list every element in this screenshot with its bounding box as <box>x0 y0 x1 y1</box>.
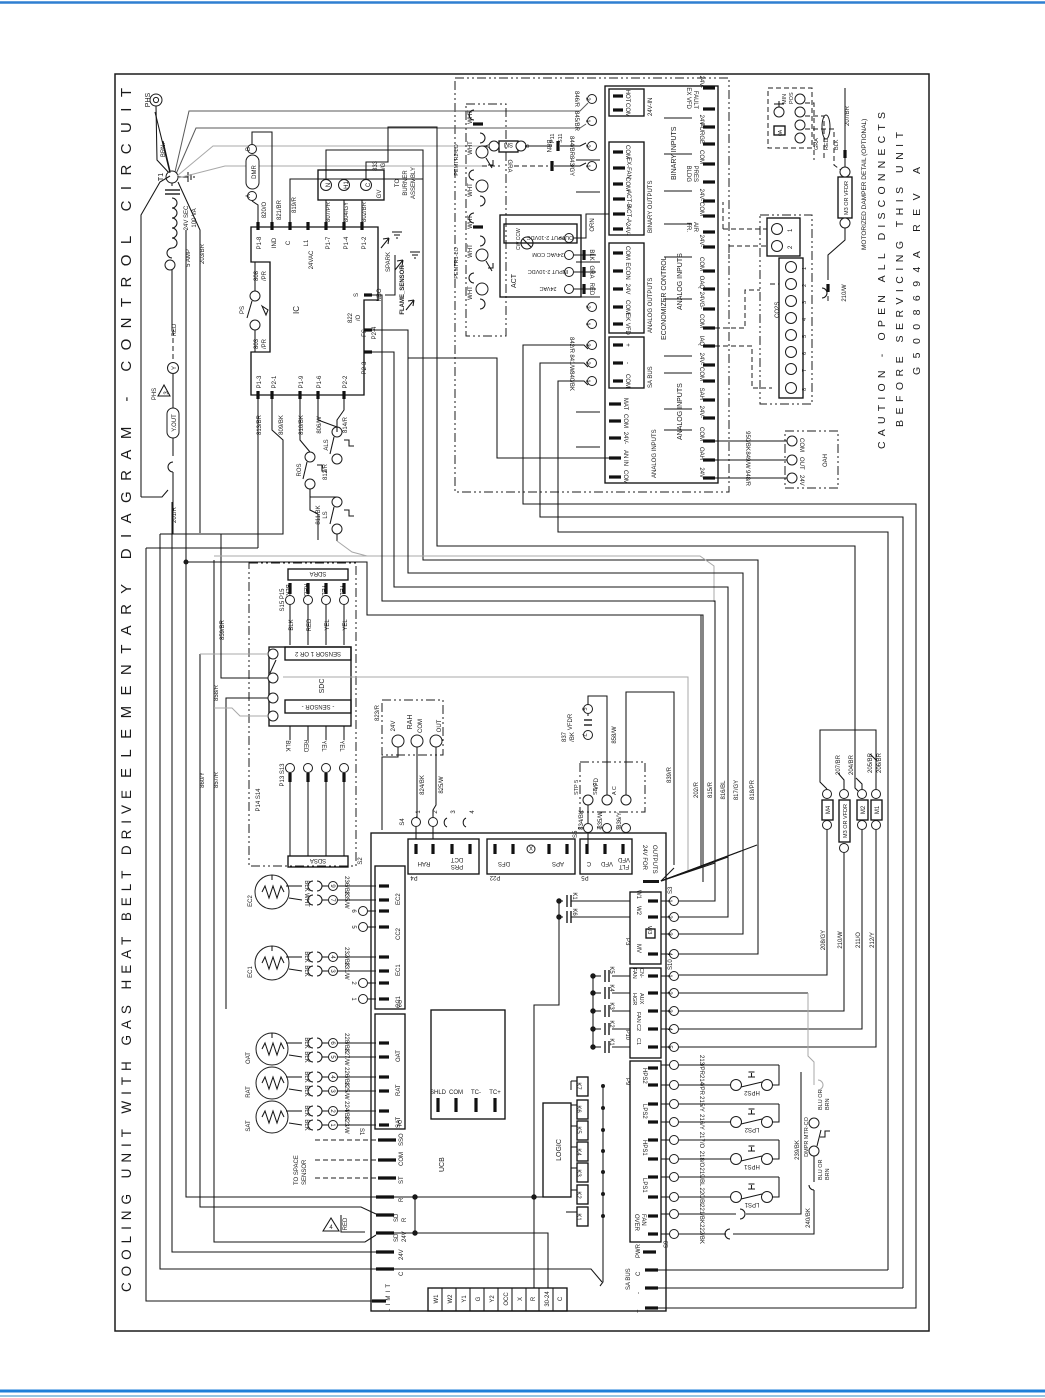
riser 817/GY to S3-3 <box>734 780 740 800</box>
svg-text:SD: SD <box>394 1213 400 1222</box>
svg-text:834/BK: 834/BK <box>579 810 585 830</box>
svg-text:BLK: BLK <box>289 619 295 630</box>
svg-text:835/W: 835/W <box>598 811 604 829</box>
svg-text:P2-4: P2-4 <box>372 326 378 339</box>
economizer ANALOG INPUTS terminals left column <box>609 398 658 484</box>
svg-text:AUX: AUX <box>638 993 644 1005</box>
svg-text:OVER: OVER <box>633 1214 639 1232</box>
svg-text:M2: M2 <box>861 805 867 814</box>
label 857/R <box>214 771 220 788</box>
svg-text:MOTORIZED DAMPER DETAIL (OPTIO: MOTORIZED DAMPER DETAIL (OPTIONAL) <box>861 119 868 250</box>
svg-text:COM: COM <box>622 470 628 484</box>
CO2S dash-dot enclosure <box>760 215 812 404</box>
label TO BURNER ASSEMBLY <box>395 167 417 199</box>
svg-text:ANALOG INPUTS: ANALOG INPUTS <box>677 383 684 440</box>
svg-text:HPS2: HPS2 <box>744 1089 760 1095</box>
svg-text:807/PR: 807/PR <box>326 201 332 222</box>
connector P2 <box>375 866 405 1009</box>
relay coil K2 <box>571 1185 605 1204</box>
S3 plug terminals <box>661 886 679 959</box>
svg-text:C: C <box>586 860 591 866</box>
svg-text:804/GY: 804/GY <box>344 202 350 222</box>
svg-text:24V-: 24V- <box>698 189 704 201</box>
connector P1 <box>358 1014 405 1136</box>
gray nested wire corner mid <box>283 677 688 872</box>
svg-text:S: S <box>354 293 360 297</box>
labels P11 S11 <box>550 134 564 143</box>
svg-text:GV: GV <box>377 190 383 199</box>
SDSA terminal box <box>288 856 364 867</box>
svg-text:W3: W3 <box>646 926 652 934</box>
svg-text:K5: K5 <box>608 966 614 974</box>
svg-text:INPUT 2-10VDC: INPUT 2-10VDC <box>528 268 569 274</box>
svg-text:S11: S11 <box>558 134 564 143</box>
label BRN. <box>161 143 167 158</box>
wire NBO riser to S3-1 <box>372 295 715 901</box>
svg-text:RED: RED <box>307 618 313 631</box>
wire 810/BK IC to ROS <box>299 399 310 452</box>
pressure switch HPS2 <box>679 1065 779 1096</box>
svg-text:COM: COM <box>624 246 630 260</box>
wire AN IN to right nest <box>408 358 609 458</box>
gray long wire upper <box>214 556 714 602</box>
svg-text:BINARY INPUTS: BINARY INPUTS <box>671 126 678 180</box>
wire 849/W to OAH <box>715 451 787 469</box>
svg-text:S5: S5 <box>573 830 579 838</box>
svg-text:857/R: 857/R <box>214 771 220 788</box>
svg-text:BLK: BLK <box>588 249 594 260</box>
svg-text:PS: PS <box>240 306 246 314</box>
svg-text:COM: COM <box>622 414 628 428</box>
svg-text:RAT: RAT <box>396 1084 402 1096</box>
terminal Y.OUT oval <box>167 374 179 438</box>
ACT wire GRA <box>574 265 596 278</box>
svg-text:HOT: HOT <box>624 90 630 103</box>
svg-text:TC+: TC+ <box>489 1090 501 1096</box>
thermistor EC1 <box>248 946 289 980</box>
svg-text:COM: COM <box>798 438 804 452</box>
svg-text:FAN: FAN <box>631 968 637 979</box>
svg-text:204/BR: 204/BR <box>849 754 855 775</box>
CO2 sensor connector upper <box>767 218 800 256</box>
svg-text:VFD: VFD <box>600 860 613 866</box>
svg-text:217/O: 217/O <box>698 1132 704 1149</box>
svg-text:OCC: OCC <box>504 1292 510 1306</box>
svg-text:6: 6 <box>802 352 808 355</box>
svg-text:C1: C1 <box>635 1038 641 1045</box>
svg-text:815/R: 815/R <box>708 781 714 798</box>
PEMTR1-LO sensor <box>454 213 493 309</box>
svg-text:BURNER: BURNER <box>403 170 409 196</box>
svg-text:RED: RED <box>172 323 178 336</box>
wire S10-2 run <box>679 992 808 994</box>
svg-text:EC1: EC1 <box>396 964 402 976</box>
svg-text:858/R: 858/R <box>214 684 220 701</box>
VFD contact detail <box>562 696 645 812</box>
svg-text:RED: RED <box>302 740 308 753</box>
svg-text:203/BR: 203/BR <box>200 243 206 264</box>
ACT wire RED <box>574 283 596 296</box>
svg-text:K2: K2 <box>608 1020 614 1028</box>
svg-text:MIN: MIN <box>782 94 788 104</box>
svg-text:PRS: PRS <box>451 863 463 869</box>
wire 201/R with plug <box>141 176 178 534</box>
svg-text:P1-7: P1-7 <box>326 236 332 249</box>
svg-text:7: 7 <box>802 369 808 372</box>
svg-text:WHT: WHT <box>468 215 474 229</box>
sensor plug S15 P15 columns <box>280 583 349 645</box>
wire 948/R to OAH <box>715 470 787 487</box>
svg-text:POS: POS <box>789 92 795 104</box>
svg-text:SM: SM <box>504 141 513 147</box>
svg-text:SAT: SAT <box>246 1120 252 1132</box>
svg-text:COM: COM <box>698 427 704 441</box>
svg-text:P1-3: P1-3 <box>257 375 263 388</box>
K bus vertical <box>600 1086 603 1286</box>
wire P2-3 riser to S3-2 <box>372 352 728 917</box>
svg-text:HPS1: HPS1 <box>744 1163 760 1169</box>
svg-text:24VAC COM: 24VAC COM <box>532 251 564 257</box>
svg-text:HGR: HGR <box>631 993 637 1005</box>
svg-text:Y1: Y1 <box>462 1295 468 1303</box>
wire ROS to LS link <box>310 489 337 497</box>
EC1 wire 231/W <box>289 962 376 980</box>
svg-text:PEMTR2-LO: PEMTR2-LO <box>454 144 460 176</box>
svg-text:R: R <box>531 1296 537 1301</box>
coil jumper M4 to M1 <box>820 730 876 789</box>
svg-text:DMR: DMR <box>252 165 258 179</box>
wire 207/BR hook to M3 <box>836 754 844 789</box>
IC control box outline <box>251 227 378 395</box>
title: COOLING UNIT WITH GAS HEAT BELT DRIVE <box>119 790 134 1292</box>
svg-text:BINARY OUTPUTS: BINARY OUTPUTS <box>648 181 654 233</box>
svg-text:841/W: 841/W <box>568 354 574 372</box>
svg-text:DCT: DCT <box>451 856 464 862</box>
dashed link CO2S upper <box>723 202 767 260</box>
relay contact K1 row <box>591 1038 630 1053</box>
svg-text:CN-: CN- <box>638 968 644 978</box>
svg-text:216/Y: 216/Y <box>698 1114 704 1130</box>
svg-text:COM: COM <box>698 367 704 381</box>
wire SD24V to 30-24 cell <box>394 1233 548 1288</box>
svg-text:YEL: YEL <box>320 740 326 752</box>
svg-text:LPS1: LPS1 <box>641 1178 647 1193</box>
svg-text:X: X <box>529 844 533 850</box>
svg-text:825/W: 825/W <box>439 776 445 794</box>
svg-text:CAUTION - OPEN ALL DISCONNECTS: CAUTION - OPEN ALL DISCONNECTS <box>876 112 888 449</box>
svg-text:L1: L1 <box>304 239 310 246</box>
spare plugs 6 5 <box>350 907 376 932</box>
svg-text:860/Y: 860/Y <box>200 772 206 788</box>
svg-text:ST: ST <box>399 1176 405 1184</box>
svg-text:W2: W2 <box>448 1294 454 1304</box>
VFD terminals STP SD A <box>574 777 631 805</box>
svg-text:CC2: CC2 <box>396 927 402 940</box>
svg-text:FAULT: FAULT <box>692 91 698 110</box>
svg-text:833: 833 <box>373 160 379 171</box>
svg-text:+: + <box>624 343 630 347</box>
svg-text:802/BR: 802/BR <box>362 201 368 222</box>
economizer section labels <box>661 126 684 440</box>
wire 802/BR <box>362 200 368 222</box>
LIMIT terminal <box>372 1284 392 1312</box>
flame sensor arrows and ground <box>372 252 420 330</box>
svg-text:COM: COM <box>698 257 704 271</box>
pressure switch LPS1 <box>679 1177 779 1207</box>
svg-text:WHT: WHT <box>468 110 474 124</box>
svg-text:Y: Y <box>172 366 178 370</box>
svg-text:Y.OUT: Y.OUT <box>172 414 178 432</box>
svg-text:TC-: TC- <box>471 1090 481 1096</box>
svg-text:809/BK: 809/BK <box>279 415 285 435</box>
svg-text:206/BR: 206/BR <box>877 752 883 773</box>
svg-text:819/R: 819/R <box>292 196 298 213</box>
SA BUS wires to right risers <box>658 1270 916 1308</box>
svg-text:P11: P11 <box>550 134 556 143</box>
ground symbol at T1 <box>178 172 194 182</box>
svg-text:P4: P4 <box>410 874 418 880</box>
relay DMR detail <box>246 145 259 201</box>
svg-text:+: + <box>636 1309 642 1313</box>
svg-text:P10: P10 <box>624 1030 630 1040</box>
svg-text:K1: K1 <box>575 1213 581 1221</box>
svg-text:ANALOG INPUTS: ANALOG INPUTS <box>677 253 684 310</box>
svg-text:812/R: 812/R <box>323 463 329 480</box>
separator ticks between right terminals <box>576 118 692 447</box>
UCB comms sub-box SHLD COM TC- TC+ <box>430 1010 505 1119</box>
svg-text:WHT: WHT <box>468 244 474 258</box>
label MOTORIZED DAMPER DETAIL <box>861 119 868 250</box>
relay SM detail <box>482 136 597 157</box>
svg-text:TO: TO <box>395 179 401 188</box>
svg-text:K3: K3 <box>575 1169 581 1177</box>
svg-text:GRA: GRA <box>588 265 594 278</box>
svg-text:SSO: SSO <box>399 1133 405 1146</box>
svg-text:LPS2: LPS2 <box>744 1126 759 1132</box>
svg-text:240/BK: 240/BK <box>806 1208 812 1228</box>
svg-text:813/BR: 813/BR <box>257 414 263 435</box>
svg-text:RED: RED <box>588 283 594 296</box>
svg-text:SENSOR: SENSOR <box>302 1159 308 1185</box>
svg-text:FAN: FAN <box>635 1012 641 1023</box>
svg-text:P1-8: P1-8 <box>257 236 263 249</box>
svg-text:K4: K4 <box>608 984 614 992</box>
SDC duct sensor box <box>268 647 351 726</box>
LOGIC box <box>543 1103 571 1197</box>
svg-text:APS: APS <box>552 860 564 866</box>
svg-text:A: A <box>246 194 252 198</box>
RAT wires <box>286 1067 376 1100</box>
svg-text:8: 8 <box>802 388 808 391</box>
svg-text:816/BL: 816/BL <box>721 780 727 800</box>
svg-text:K6: K6 <box>571 908 577 916</box>
svg-text:GRA: GRA <box>506 159 512 172</box>
svg-text:P1-6: P1-6 <box>317 375 323 388</box>
spare plugs 2 1 <box>350 979 376 1004</box>
svg-text:STP 5: STP 5 <box>574 780 580 795</box>
riser 815/R to S3-1 <box>708 781 714 798</box>
svg-text:S1: S1 <box>358 1128 364 1136</box>
svg-text:24V: 24V <box>391 721 397 732</box>
junction into R wire <box>184 560 703 882</box>
switch ROS <box>297 452 327 525</box>
svg-text:MV: MV <box>635 944 641 953</box>
wire 839/R from A terminal <box>626 692 674 865</box>
svg-text:BLU OR: BLU OR <box>818 1089 824 1110</box>
svg-text:YEL: YEL <box>338 740 344 752</box>
damper motor switch DMPR MTR-CO <box>804 1089 831 1190</box>
svg-text:K4: K4 <box>575 1148 581 1156</box>
gray wire from SDC 9 <box>214 708 268 716</box>
svg-text:SENSOR 1 OR 2: SENSOR 1 OR 2 <box>294 650 341 656</box>
svg-text:N: N <box>326 183 332 187</box>
svg-text:P2-2: P2-2 <box>343 375 349 388</box>
wire 204/BR label <box>849 754 855 775</box>
IC top pin labels <box>257 236 368 269</box>
connector P22 <box>487 839 575 880</box>
svg-text:24V-: 24V- <box>698 353 704 365</box>
svg-text:213/PR: 213/PR <box>698 1055 704 1076</box>
svg-text:24V-: 24V- <box>624 223 630 235</box>
svg-text:UCB: UCB <box>439 1157 446 1172</box>
left bus wire to C <box>172 502 376 1252</box>
svg-text:RAH: RAH <box>418 860 431 866</box>
svg-text:LPS2: LPS2 <box>641 1104 647 1119</box>
drawing border frame <box>115 74 929 1331</box>
svg-text:K2: K2 <box>575 1191 581 1199</box>
IC right pin NBO <box>354 288 383 301</box>
svg-text:COM: COM <box>399 1152 405 1166</box>
wire LS chain down <box>336 534 338 541</box>
IC right pin FS P2-4 <box>348 312 378 339</box>
svg-text:BLDG: BLDG <box>685 166 691 183</box>
svg-text:K5: K5 <box>575 1126 581 1134</box>
svg-text:/BK: /BK <box>570 732 576 742</box>
S5 plug terminals <box>573 805 631 844</box>
svg-text:FLT: FLT <box>619 863 630 869</box>
svg-text:219/BL: 219/BL <box>698 1167 704 1187</box>
EC2 wire 236/BK <box>286 876 376 896</box>
wire 842/R to M2 coil <box>523 337 916 1270</box>
svg-text:24V: 24V <box>798 475 804 486</box>
svg-text:211/O: 211/O <box>856 932 862 948</box>
wire 823/R from RAH <box>375 704 398 830</box>
svg-text:MAT: MAT <box>622 398 628 411</box>
UCB bottom terminal strip <box>428 1288 567 1311</box>
svg-text:24V-: 24V- <box>698 76 704 88</box>
thermistor OAT <box>246 1033 288 1065</box>
connector P5 <box>580 839 632 880</box>
wire RED dash-dot to Y terminal <box>168 270 179 374</box>
transformer secondary winding <box>172 183 198 238</box>
wire PHS to economizer 846/R <box>175 95 597 173</box>
svg-text:BLK: BLK <box>834 139 840 150</box>
caution note line 2 <box>894 131 906 427</box>
wire 210/W damper return <box>822 228 848 302</box>
svg-text:G5008694A REV A: G5008694A REV A <box>911 167 923 375</box>
svg-text:SAH: SAH <box>698 388 704 400</box>
svg-text:859/BR: 859/BR <box>220 619 226 640</box>
svg-text:CO2S: CO2S <box>775 302 781 318</box>
relay contact K5 row <box>591 966 630 982</box>
wire 821/BR <box>252 132 283 222</box>
svg-text:P1-2: P1-2 <box>362 236 368 249</box>
svg-text:PRES: PRES <box>692 166 698 182</box>
svg-text:P3: P3 <box>624 938 630 946</box>
CO2 sensor connector lower <box>775 258 808 398</box>
svg-text:ASSEMBLY: ASSEMBLY <box>411 167 417 199</box>
svg-text:215/Y: 215/Y <box>698 1096 704 1112</box>
svg-text:P2-1: P2-1 <box>272 375 278 388</box>
wire 804/GY <box>344 200 350 222</box>
svg-text:24V: 24V <box>624 284 630 295</box>
PEMTR2-LO sensor <box>454 110 493 206</box>
IC bottom pin bars <box>258 391 344 399</box>
svg-text:RAH: RAH <box>407 715 414 730</box>
svg-text:24V SEC: 24V SEC <box>184 205 190 230</box>
svg-text:- SENSOR -: - SENSOR - <box>302 703 335 709</box>
svg-text:205/BR: 205/BR <box>868 752 874 773</box>
svg-text:207/BR: 207/BR <box>845 105 851 126</box>
svg-text:EC2: EC2 <box>248 895 254 907</box>
damper detail harness oval <box>822 115 830 139</box>
economizer ANALOG OUTPUTS sub-box <box>609 243 654 336</box>
svg-text:YEL: YEL <box>338 584 344 596</box>
svg-text:SA BUS: SA BUS <box>626 1268 632 1290</box>
actuator ACT box <box>500 215 581 297</box>
wire 950/BK to OAH <box>715 431 787 451</box>
left bus wire to LIMIT <box>146 548 372 1301</box>
svg-text:0A: 0A <box>778 129 784 136</box>
title: ELEMENTARY DIAGRAM - CONTROL CIRCUIT <box>118 88 135 778</box>
svg-text:843/GY: 843/GY <box>568 156 574 176</box>
EC2 wire 235/W <box>289 891 376 909</box>
svg-text:FAN: FAN <box>640 1214 646 1226</box>
svg-text:P2-3: P2-3 <box>362 361 368 374</box>
SAT wires <box>286 1101 376 1134</box>
wire 806/W IC to ALS <box>317 399 337 434</box>
svg-text:PEMTR1-LO: PEMTR1-LO <box>454 247 460 279</box>
svg-text:/G: /G <box>381 163 387 170</box>
svg-text:IAQ: IAQ <box>698 336 704 347</box>
wire C to C cell <box>394 1269 602 1282</box>
warning triangle PHS 3 <box>152 385 170 400</box>
svg-text:YEL: YEL <box>343 619 349 631</box>
svg-text:LPS1: LPS1 <box>744 1201 759 1207</box>
svg-text:C: C <box>399 1271 405 1276</box>
sensor plug P13 S13 columns lower <box>256 726 349 856</box>
relay coil K4 <box>571 1142 605 1161</box>
svg-text:P2: P2 <box>395 1000 401 1008</box>
svg-text:K1: K1 <box>608 1038 614 1046</box>
contactor coil M4 <box>822 790 833 830</box>
burner terminal box <box>318 170 384 200</box>
svg-text:210/W: 210/W <box>838 931 844 949</box>
svg-text:811/BK: 811/BK <box>316 505 322 524</box>
thermistor RAT <box>246 1067 288 1099</box>
wire 845/BR run <box>176 117 597 175</box>
svg-text:CW CCW: CW CCW <box>516 228 522 250</box>
junction R to SD24V link <box>394 1195 417 1235</box>
svg-text:ACT: ACT <box>511 273 518 288</box>
spare plugs 2 1 below ACT <box>584 303 597 329</box>
svg-text:LS: LS <box>323 511 329 518</box>
page top blue rule <box>0 1 1045 3</box>
svg-text:FS: FS <box>362 329 368 337</box>
svg-text:S4: S4 <box>400 818 406 826</box>
pressure switch LPS2 <box>679 1104 779 1132</box>
svg-text:814/R: 814/R <box>343 416 349 433</box>
